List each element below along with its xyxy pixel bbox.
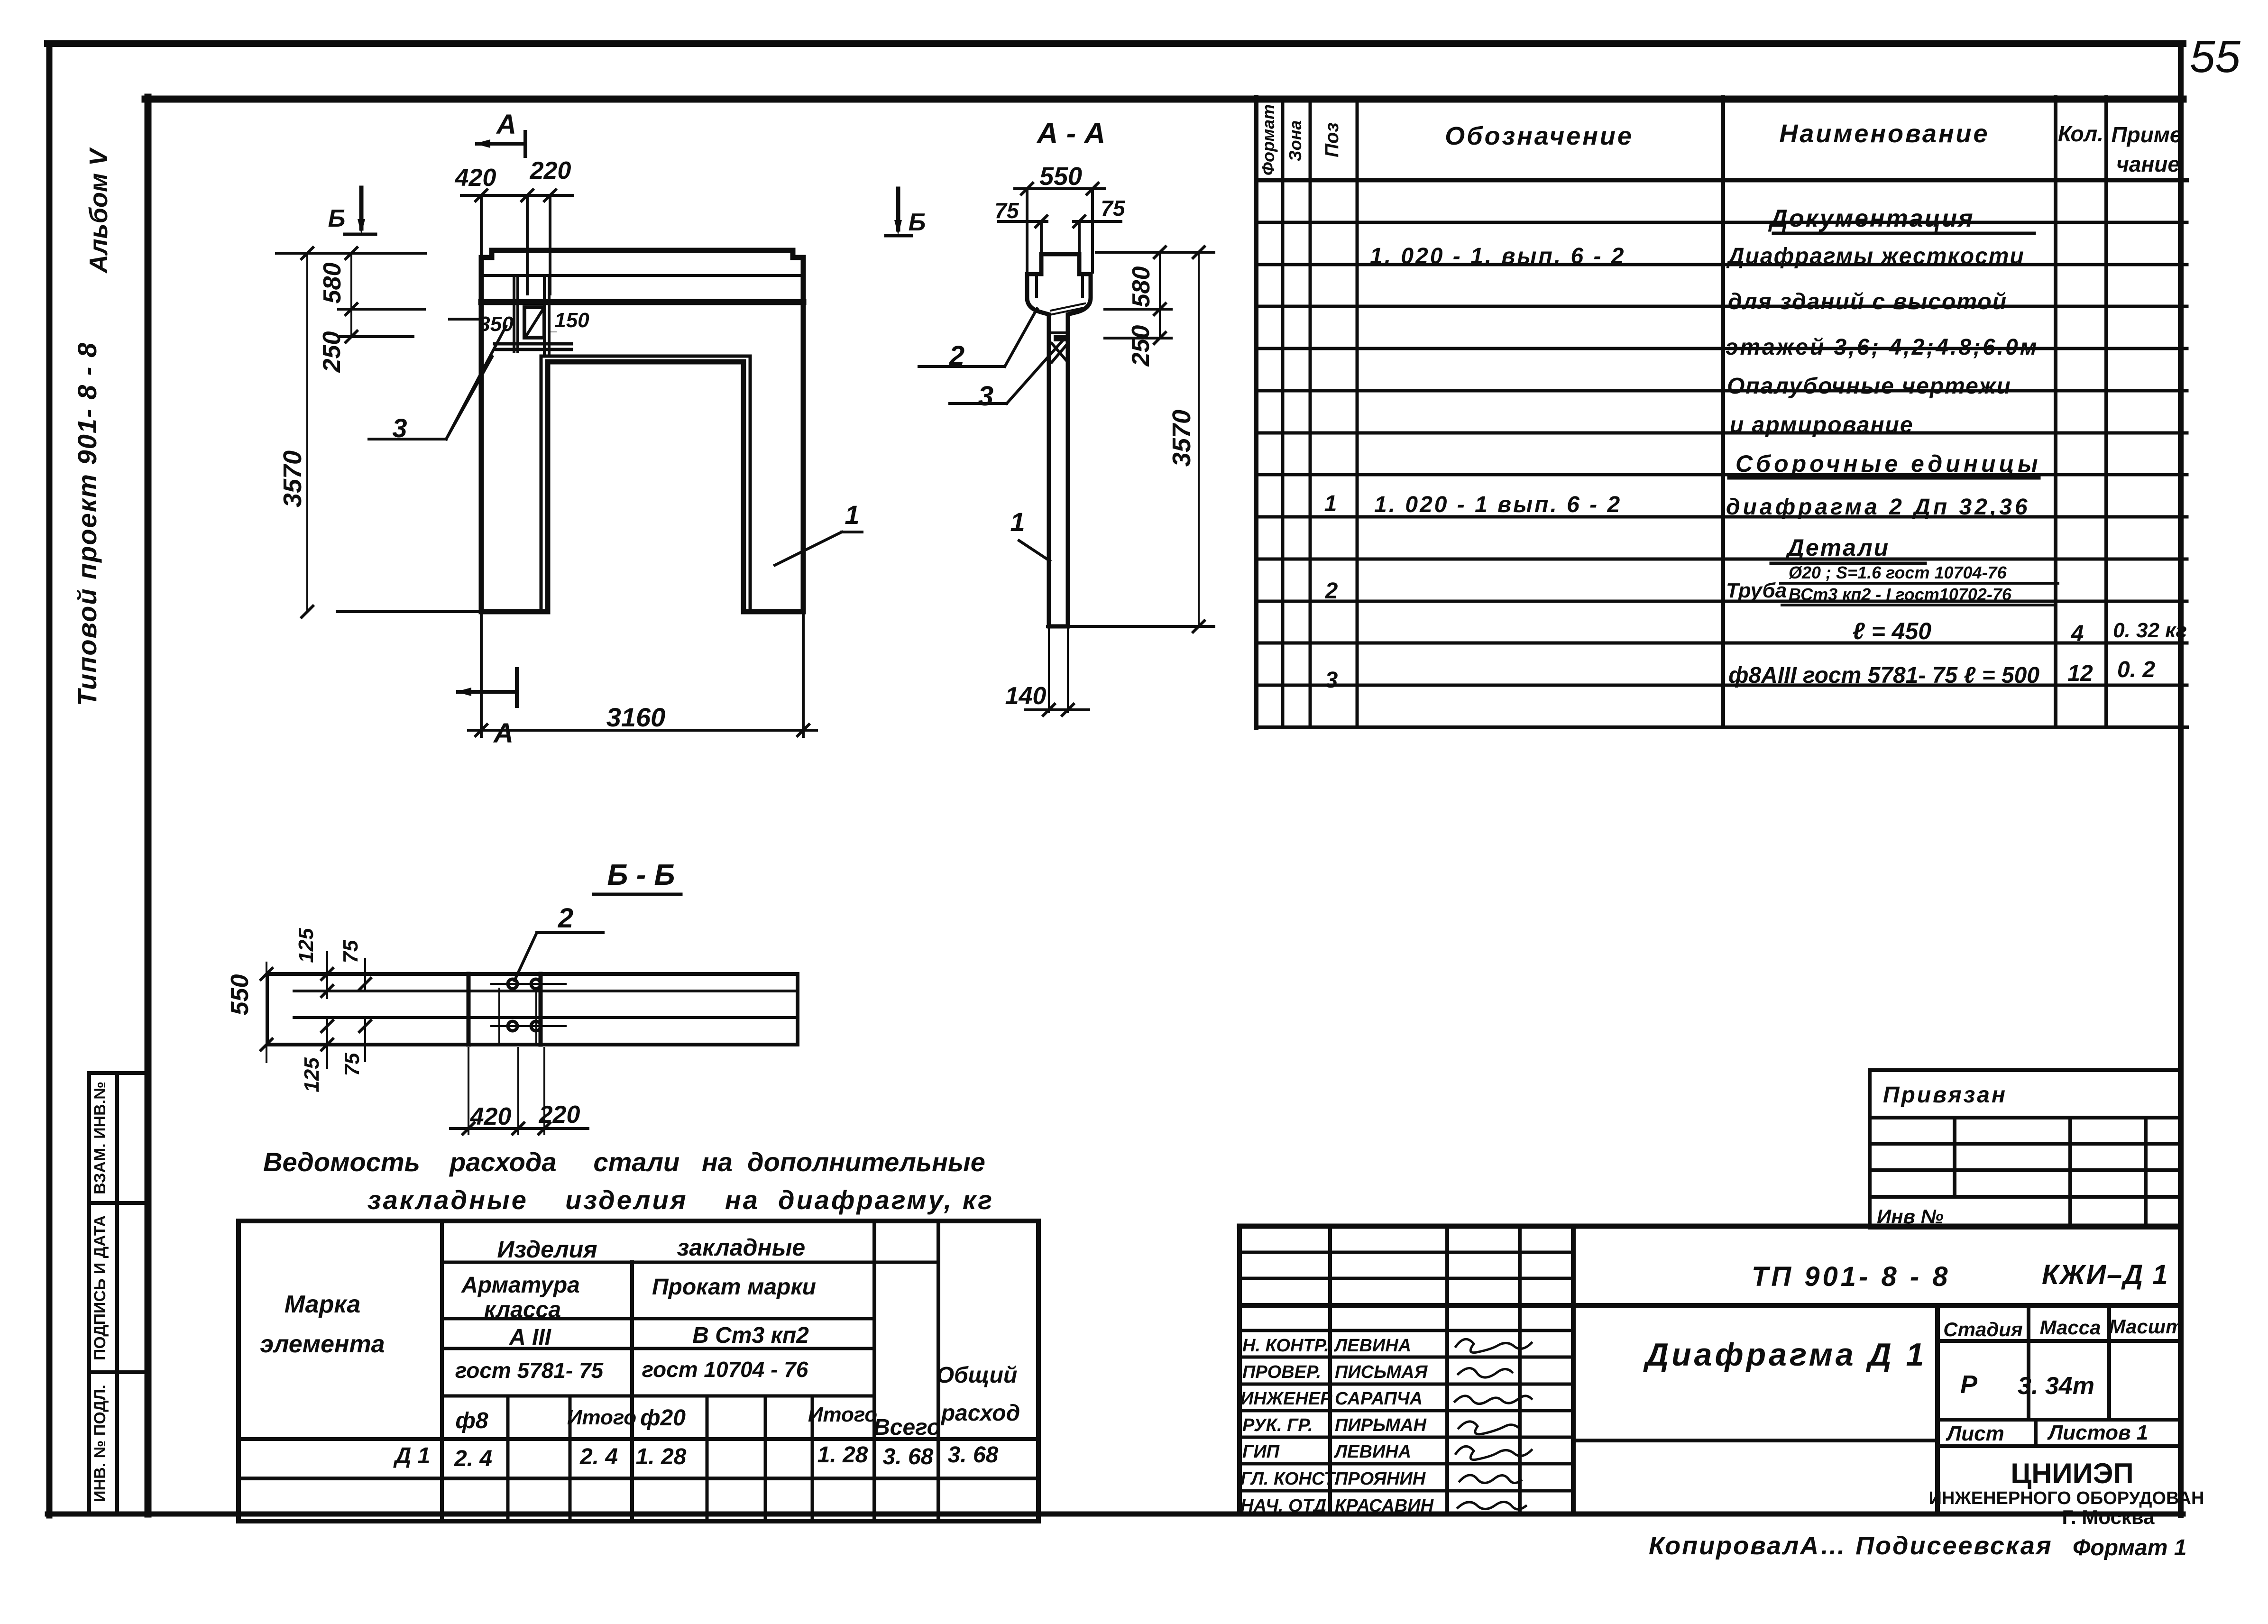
svg-text:А III: А III — [509, 1325, 552, 1350]
embedded part square washer poz.2 — [524, 307, 544, 338]
svg-text:Поз: Поз — [1322, 122, 1342, 157]
svg-text:Б - Б: Б - Б — [607, 859, 675, 891]
svg-text:75: 75 — [340, 1053, 364, 1076]
svg-text:для зданий с высотой: для зданий с высотой — [1728, 289, 2007, 314]
svg-text:Привязан: Привязан — [1883, 1083, 2007, 1108]
svg-text:350: 350 — [478, 312, 514, 336]
bottom handwriting kopirovala — [1649, 1532, 2186, 1560]
dimension chain 3570 A-A — [1047, 247, 1214, 632]
svg-text:550: 550 — [226, 974, 254, 1016]
section mark B at A-A — [886, 189, 911, 236]
specification table header texts — [1258, 104, 2182, 176]
svg-text:ℓ = 450: ℓ = 450 — [1853, 618, 1931, 644]
svg-text:Стадия: Стадия — [1943, 1318, 2022, 1340]
svg-text:ВСт3 кп2 - I гост10702-76: ВСт3 кп2 - I гост10702-76 — [1789, 585, 2012, 604]
svg-text:Лист: Лист — [1946, 1422, 2004, 1445]
svg-text:ЦНИИЭП: ЦНИИЭП — [2011, 1458, 2133, 1489]
underlines in specification — [1729, 233, 2058, 605]
svg-text:В Ст3 кп2: В Ст3 кп2 — [692, 1323, 809, 1348]
anchor poz.3 in stem — [1049, 331, 1068, 334]
front view texts — [278, 109, 860, 749]
steel consumption table texts — [260, 1234, 1020, 1471]
title block grid — [1240, 1226, 2181, 1514]
svg-text:этажей 3,6; 4,2;4.8;6.0м: этажей 3,6; 4,2;4.8;6.0м — [1726, 335, 2038, 360]
embedded part plate lines — [495, 342, 571, 346]
svg-text:580: 580 — [1128, 266, 1155, 308]
left dimension lines 580/250 — [276, 248, 425, 342]
dimension chain 3570 front — [302, 248, 481, 617]
opening outer contour — [541, 356, 750, 612]
top band line thick — [481, 299, 803, 305]
svg-text:Б: Б — [328, 205, 346, 232]
svg-text:ГЛ. КОНСТ.: ГЛ. КОНСТ. — [1240, 1469, 1339, 1489]
svg-text:КРАСАВИН: КРАСАВИН — [1335, 1496, 1434, 1516]
svg-text:гост 5781- 75: гост 5781- 75 — [455, 1358, 604, 1383]
svg-text:125: 125 — [300, 1057, 323, 1092]
right dimensions 580/250 A-A — [1096, 247, 1214, 344]
svg-text:Приме: Приме — [2112, 122, 2182, 147]
svg-text:140: 140 — [1005, 682, 1047, 710]
leader 3 front — [369, 326, 506, 439]
svg-text:Сборочные единицы: Сборочные единицы — [1735, 450, 2041, 477]
svg-text:ТП 901- 8 - 8: ТП 901- 8 - 8 — [1752, 1261, 1951, 1292]
column cross-section outline — [1027, 254, 1091, 626]
svg-text:ф20: ф20 — [640, 1405, 686, 1431]
dimension 140 — [1025, 629, 1089, 716]
svg-text:ПИРЬМАН: ПИРЬМАН — [1335, 1415, 1427, 1435]
svg-text:ЛЕВИНА: ЛЕВИНА — [1333, 1336, 1411, 1356]
svg-text:ВЗАМ. ИНВ.№: ВЗАМ. ИНВ.№ — [91, 1082, 109, 1194]
svg-text:Н. КОНТР.: Н. КОНТР. — [1242, 1336, 1329, 1356]
svg-text:2: 2 — [1325, 578, 1338, 604]
svg-text:Детали: Детали — [1785, 534, 1890, 561]
svg-text:Зона: Зона — [1286, 120, 1305, 162]
svg-text:ИНЖЕНЕРНОГО ОБОРУДОВАН: ИНЖЕНЕРНОГО ОБОРУДОВАН — [1929, 1488, 2204, 1508]
section B-B — [226, 859, 798, 1134]
svg-text:3160: 3160 — [606, 702, 666, 732]
svg-text:Опалубочные чертежи: Опалубочные чертежи — [1727, 374, 2011, 399]
svg-text:РУК. ГР.: РУК. ГР. — [1242, 1415, 1313, 1435]
pipe axis lines — [491, 983, 566, 985]
title block texts — [1643, 1259, 2204, 1528]
svg-text:220: 220 — [539, 1101, 580, 1129]
steel consumption table grid — [239, 1221, 1038, 1521]
front elevation of diaphragm panel D1 — [276, 109, 862, 749]
svg-text:250: 250 — [1127, 325, 1155, 367]
svg-text:1. 020 - 1 вып. 6 - 2: 1. 020 - 1 вып. 6 - 2 — [1374, 492, 1622, 517]
svg-text:Б: Б — [909, 209, 926, 236]
dimension 550 left B-B — [261, 963, 272, 1062]
svg-text:ПИСЬМАЯ: ПИСЬМАЯ — [1335, 1362, 1428, 1382]
dimensions 125/75 top — [321, 952, 371, 998]
svg-text:чание: чание — [2116, 152, 2180, 176]
svg-text:420: 420 — [470, 1103, 512, 1130]
svg-text:Изделия: Изделия — [497, 1236, 597, 1263]
svg-text:3570: 3570 — [1167, 410, 1196, 467]
svg-text:1: 1 — [1010, 507, 1025, 537]
svg-text:ИНЖЕНЕР: ИНЖЕНЕР — [1240, 1389, 1332, 1409]
leader 2 B-B — [514, 933, 603, 981]
section A-A — [886, 117, 1214, 716]
svg-text:1. 28: 1. 28 — [636, 1444, 687, 1469]
svg-text:1: 1 — [845, 500, 859, 530]
svg-text:12: 12 — [2067, 661, 2093, 686]
pipe poz.2 in head — [1050, 307, 1086, 315]
svg-text:Формат: Формат — [1258, 104, 1278, 175]
svg-text:250: 250 — [318, 331, 346, 373]
left leg bottom edge — [481, 610, 548, 614]
leader 1 front — [775, 532, 862, 565]
label 350 — [450, 318, 481, 321]
svg-text:Формат 1: Формат 1 — [2073, 1535, 2186, 1560]
dimensions 125/75 bottom — [321, 1019, 371, 1068]
svg-text:Ø20 ; S=1.6 гост 10704-76: Ø20 ; S=1.6 гост 10704-76 — [1789, 563, 2007, 582]
svg-text:580: 580 — [319, 263, 346, 304]
svg-text:ГИП: ГИП — [1242, 1442, 1280, 1462]
svg-text:75: 75 — [1101, 196, 1126, 220]
svg-text:ф8АIII гост 5781- 75 ℓ = 50: ф8АIII гост 5781- 75 ℓ = 500 — [1728, 663, 2039, 688]
svg-text:1: 1 — [1324, 491, 1337, 516]
title underline B-B — [594, 893, 681, 896]
svg-text:диафрагма 2 Дп 32,36: диафрагма 2 Дп 32,36 — [1726, 495, 2030, 520]
svg-text:2: 2 — [949, 340, 964, 371]
privyazan block — [1870, 1070, 2181, 1228]
svg-text:Альбом V: Альбом V — [84, 147, 113, 274]
steel consumption table title — [263, 1147, 994, 1215]
svg-text:Марка: Марка — [285, 1291, 361, 1318]
svg-text:гост 10704 - 76: гост 10704 - 76 — [642, 1357, 808, 1382]
svg-text:420: 420 — [455, 164, 496, 192]
section mark A bottom — [456, 669, 517, 706]
svg-text:550: 550 — [1039, 162, 1082, 191]
svg-text:класса: класса — [484, 1297, 561, 1322]
svg-text:КЖИ–Д 1: КЖИ–Д 1 — [2042, 1259, 2169, 1290]
dimension 550 — [1015, 183, 1105, 272]
section A-A texts — [909, 117, 1196, 710]
svg-text:ЛЕВИНА: ЛЕВИНА — [1333, 1442, 1411, 1462]
svg-text:ПОДПИСЬ И ДАТА: ПОДПИСЬ И ДАТА — [91, 1215, 109, 1360]
svg-text:Труба: Труба — [1726, 579, 1787, 602]
svg-text:Листов 1: Листов 1 — [2047, 1421, 2148, 1444]
embedded part anchor bars — [514, 277, 549, 353]
leader 3 A-A — [950, 339, 1064, 404]
svg-text:3570: 3570 — [278, 450, 307, 507]
svg-text:3. 34т: 3. 34т — [2018, 1372, 2094, 1400]
svg-text:и армирование: и армирование — [1730, 413, 1914, 438]
dimensions 75/75 — [999, 216, 1121, 252]
specification rows content — [1324, 205, 2187, 693]
right leg bottom edge — [744, 610, 803, 614]
svg-text:2. 4: 2. 4 — [579, 1444, 618, 1469]
svg-text:75: 75 — [994, 198, 1019, 223]
beam inner wall lines — [294, 990, 798, 992]
svg-text:75: 75 — [339, 940, 362, 963]
svg-text:А: А — [493, 718, 514, 749]
svg-text:Итого: Итого — [808, 1403, 877, 1426]
inner drawing frame — [145, 97, 2183, 1514]
svg-text:Всего: Всего — [873, 1415, 941, 1440]
svg-text:закладные: закладные — [677, 1234, 805, 1261]
svg-text:Масшт: Масшт — [2109, 1315, 2184, 1338]
section mark A top — [475, 132, 525, 156]
signature rows texts — [1240, 1336, 1434, 1516]
svg-text:3. 68: 3. 68 — [883, 1444, 934, 1469]
svg-text:1. 020 - 1. вып. 6 - 2: 1. 020 - 1. вып. 6 - 2 — [1370, 244, 1626, 269]
svg-text:0. 2: 0. 2 — [2117, 657, 2155, 682]
svg-text:55: 55 — [2190, 31, 2240, 82]
svg-text:ПРОВЕР.: ПРОВЕР. — [1242, 1362, 1321, 1382]
svg-text:ИНВ. № ПОДЛ.: ИНВ. № ПОДЛ. — [91, 1385, 109, 1502]
svg-text:Р: Р — [1960, 1370, 1978, 1399]
section mark B front — [345, 188, 376, 234]
svg-text:150: 150 — [554, 309, 589, 332]
svg-text:4: 4 — [2071, 621, 2084, 646]
top band line thin — [481, 274, 803, 277]
svg-text:Наименование: Наименование — [1779, 119, 1989, 148]
svg-text:220: 220 — [530, 157, 571, 184]
svg-text:ПРОЯНИН: ПРОЯНИН — [1335, 1469, 1426, 1489]
dimension 420/220 top — [461, 190, 573, 294]
svg-text:3: 3 — [392, 413, 407, 443]
leader 1 A-A — [1019, 541, 1050, 561]
svg-text:3: 3 — [1325, 668, 1338, 693]
svg-text:1. 28: 1. 28 — [817, 1442, 868, 1468]
svg-text:Обозначение: Обозначение — [1445, 122, 1634, 150]
svg-text:КопировалА… Подисеевская: КопировалА… Подисеевская — [1649, 1532, 2053, 1560]
label 150 — [549, 331, 557, 332]
pipe extension verticals inside beam — [498, 989, 500, 1045]
section B-B texts — [226, 859, 675, 1130]
svg-text:0. 32 кг: 0. 32 кг — [2113, 619, 2187, 642]
embedded plate edges — [467, 974, 471, 1045]
svg-text:2: 2 — [558, 903, 573, 934]
svg-text:Диафрагма Д 1: Диафрагма Д 1 — [1643, 1337, 1927, 1373]
panel outline with top corner notches — [481, 250, 803, 612]
pipe ends (4 circles) — [508, 979, 541, 1031]
svg-text:А: А — [496, 109, 516, 140]
svg-text:НАЧ. ОТД: НАЧ. ОТД — [1240, 1496, 1326, 1516]
leader 2 A-A — [919, 309, 1037, 367]
svg-text:ф8: ф8 — [455, 1408, 488, 1433]
svg-text:САРАПЧА: САРАПЧА — [1335, 1389, 1423, 1409]
svg-text:2. 4: 2. 4 — [454, 1446, 492, 1471]
svg-text:А - А: А - А — [1036, 117, 1106, 150]
svg-text:Ведомость расхода стали: Ведомость расхода стали на дополнительны… — [263, 1147, 985, 1177]
svg-text:расход: расход — [940, 1401, 1020, 1426]
signature squiggles — [1455, 1339, 1532, 1509]
svg-text:Арматура: Арматура — [461, 1273, 580, 1298]
svg-text:Масса: Масса — [2040, 1316, 2101, 1339]
svg-text:Типовой проект 901- 8 - 8: Типовой проект 901- 8 - 8 — [72, 342, 102, 706]
svg-text:Прокат марки: Прокат марки — [652, 1275, 816, 1300]
svg-text:Итого: Итого — [567, 1406, 636, 1429]
svg-text:Д 1: Д 1 — [393, 1443, 431, 1468]
head notch inner lines — [1035, 276, 1038, 297]
svg-text:3: 3 — [978, 381, 993, 412]
dimension 420/220 bottom B-B — [450, 1048, 588, 1134]
beam plan outline — [268, 974, 798, 1045]
svg-text:3. 68: 3. 68 — [948, 1442, 999, 1468]
svg-text:125: 125 — [294, 928, 318, 963]
svg-text:Общий: Общий — [937, 1363, 1018, 1388]
svg-text:Г. Москва: Г. Москва — [2062, 1506, 2155, 1528]
svg-text:элемента: элемента — [260, 1330, 385, 1358]
margin stamp boxes — [89, 1073, 147, 1514]
specification table grid — [1256, 97, 2187, 727]
svg-text:Кол.: Кол. — [2058, 121, 2103, 146]
dimension 3160 bottom — [468, 615, 817, 736]
svg-text:Документация: Документация — [1768, 205, 1974, 232]
margin stamp labels — [91, 1082, 109, 1502]
svg-text:закладные изделия на ди: закладные изделия на диафрагму, кг — [367, 1185, 994, 1215]
svg-text:Диафрагмы жесткости: Диафрагмы жесткости — [1726, 244, 2025, 269]
